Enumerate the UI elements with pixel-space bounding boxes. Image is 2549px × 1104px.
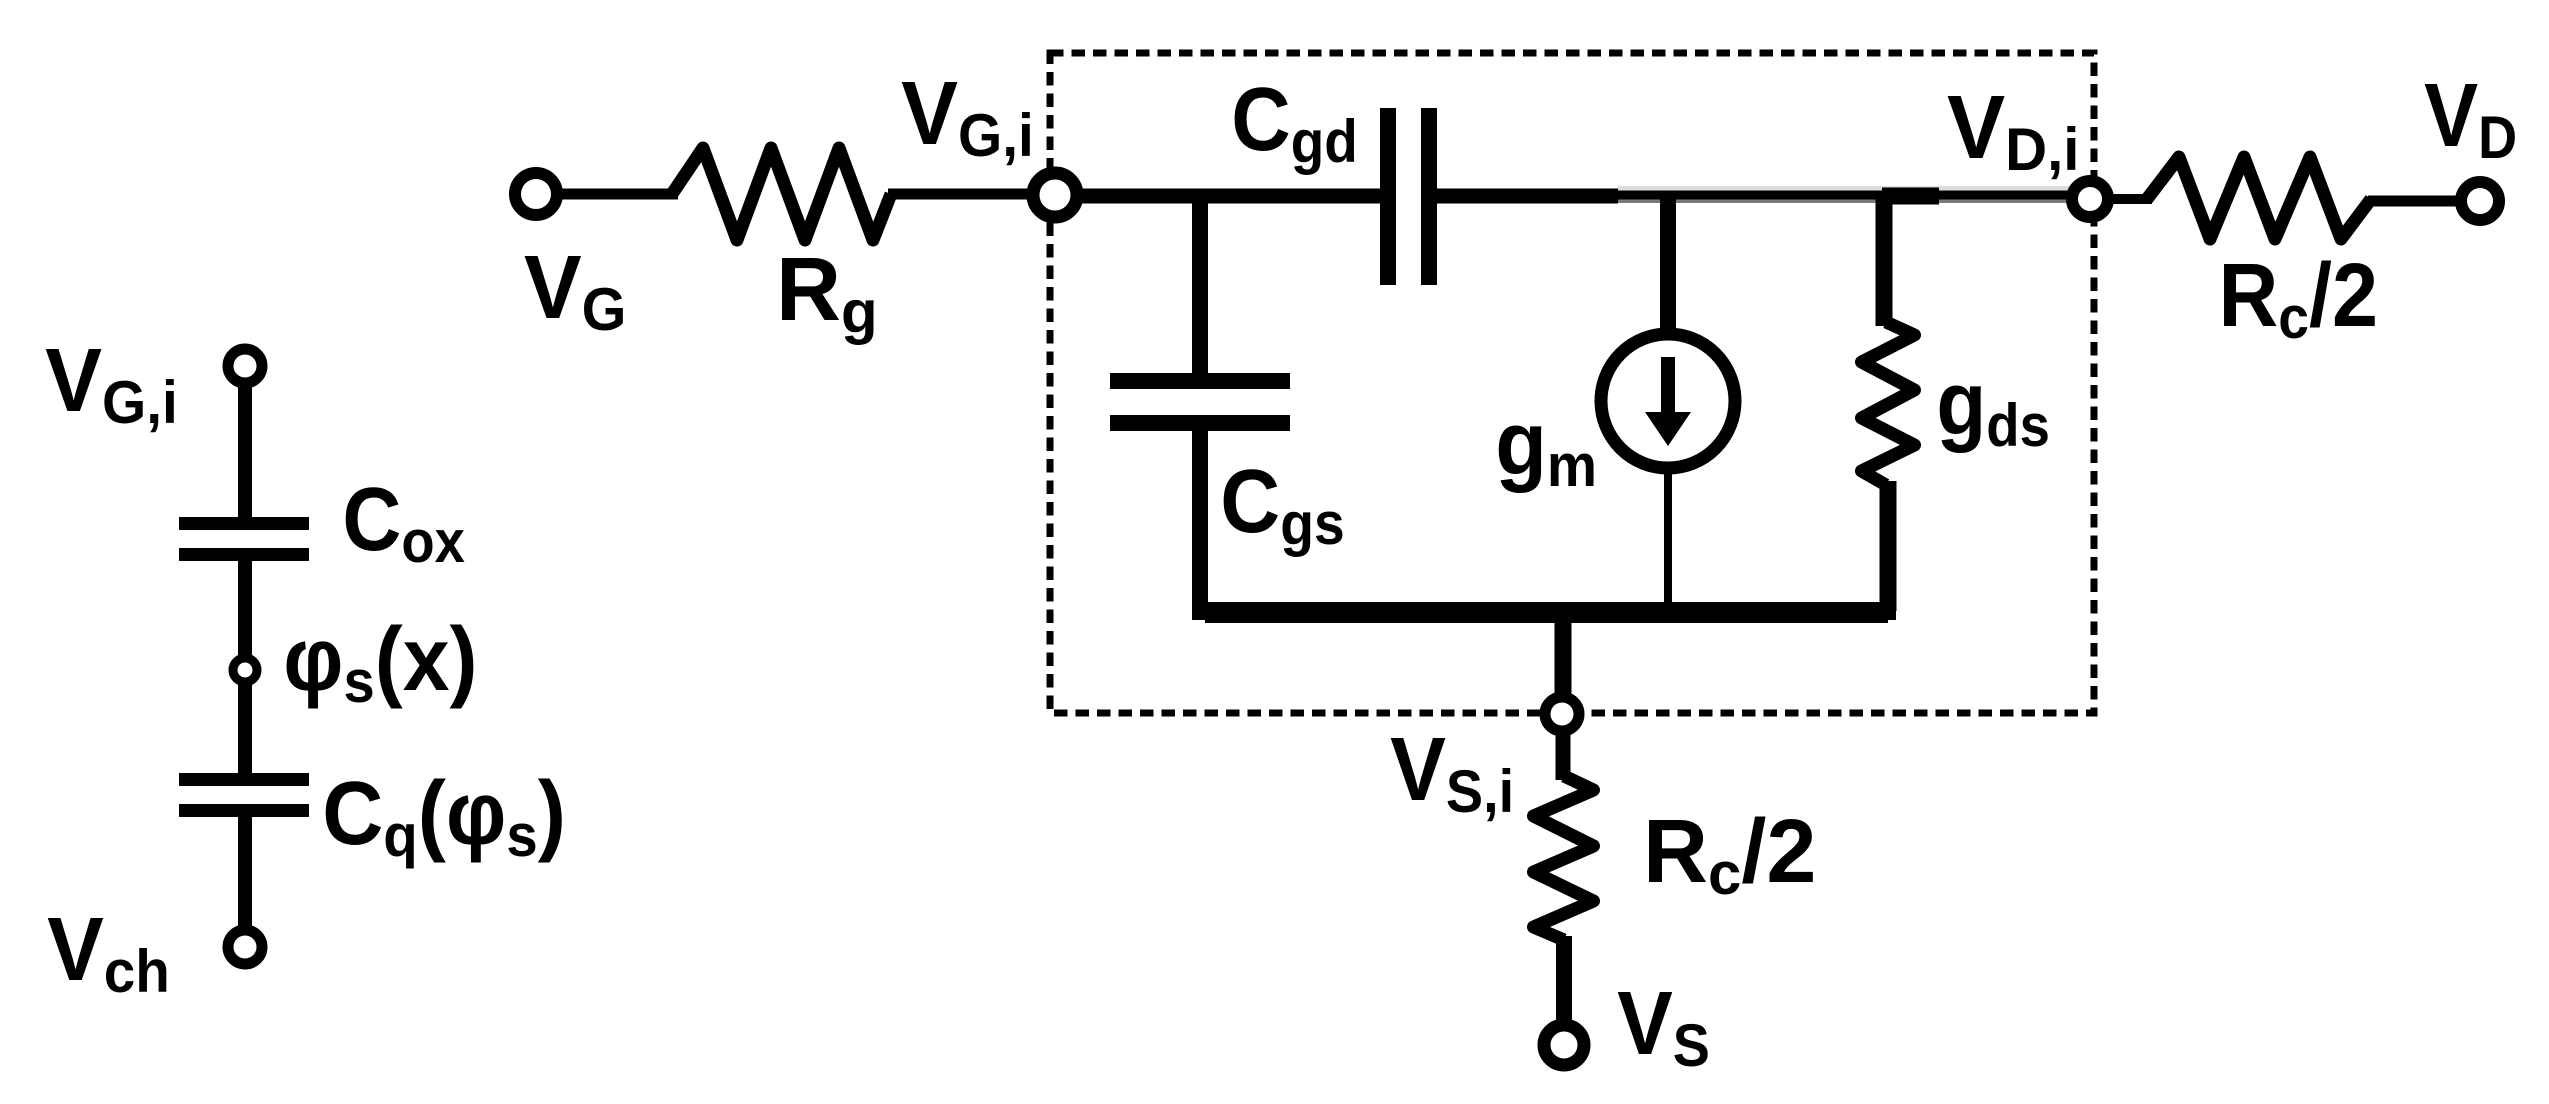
- wire: R_c/2 to V_S terminal: [1556, 936, 1572, 1045]
- wire: g_m branch from top wire down to current source: [1660, 196, 1676, 335]
- label V_G,i (left branch): [45, 330, 178, 436]
- terminal V_G,i (left branch, top): [228, 349, 262, 383]
- resistor R_c/2 (bottom, vertical zigzag): [1534, 776, 1594, 940]
- wire: C_gs bottom plate down to source rail: [1192, 431, 1208, 618]
- capacitor C_ox top plate: [179, 517, 309, 530]
- wire: g_m circle bottom to source rail (thin): [1664, 468, 1672, 612]
- wire: node V_S,i to R_c/2: [1556, 731, 1571, 780]
- capacitor C_gd right plate: [1421, 108, 1437, 285]
- wire: V_D,i to R_c/2 (top): [2108, 194, 2152, 204]
- label V_G,i (node): [901, 63, 1034, 169]
- label C_gs: [1220, 452, 1344, 558]
- label C_ox: [342, 469, 465, 575]
- label g_m: [1495, 393, 1597, 500]
- label V_ch: [47, 899, 170, 1006]
- wire: R_c/2 to V_D terminal: [2368, 196, 2458, 207]
- wire: C_gd right plate to drain node (thick part): [1437, 189, 1618, 204]
- label V_D: [2424, 65, 2517, 172]
- terminal V_G: [515, 173, 557, 215]
- label R_c/2 (bottom): [1643, 802, 1816, 907]
- terminal V_D: [2461, 182, 2499, 220]
- resistor R_g: [672, 148, 891, 240]
- wire: light upper fringe of thin drain wire: [1618, 186, 2070, 191]
- label V_S: [1617, 973, 1710, 1079]
- label C_q(phi_s): [322, 763, 566, 870]
- capacitor C_gd left plate: [1380, 108, 1396, 285]
- current source g_m arrow head: [1645, 412, 1691, 446]
- terminal V_S: [1544, 1025, 1584, 1065]
- wire: node phi_s to C_q top plate: [238, 682, 252, 773]
- label R_g: [776, 240, 878, 345]
- capacitor C_ox bottom plate: [179, 548, 309, 561]
- current source g_m (circle): [1601, 334, 1735, 468]
- resistor g_ds (vertical zigzag): [1862, 322, 1915, 485]
- current source g_m arrow shaft: [1661, 357, 1675, 414]
- wire: V_S,i stub from rail down to node: [1555, 611, 1572, 695]
- wire: g_ds branch vertical (top): [1876, 196, 1893, 326]
- wire: C_gs branch vertical (top): [1192, 196, 1208, 373]
- label V_G: [524, 236, 626, 343]
- wire: C_ox to node phi_s: [238, 561, 252, 670]
- wire: g_ds junction stub on top wire: [1882, 188, 1939, 205]
- wire: V_G to R_g: [557, 189, 678, 200]
- dashed box: intrinsic transistor: [1050, 53, 2094, 713]
- wire: C_q to V_ch terminal: [238, 817, 252, 947]
- wire: g_ds bottom to source rail: [1880, 481, 1897, 611]
- capacitor C_gs top plate: [1110, 373, 1290, 389]
- wire: source rail (bottom horizontal): [1192, 602, 1896, 620]
- capacitor C_gs bottom plate: [1110, 415, 1290, 431]
- capacitor C_q top plate: [179, 773, 309, 786]
- label V_S,i: [1390, 719, 1514, 825]
- wire: V_G,i terminal to C_ox top plate: [238, 366, 252, 517]
- terminal V_ch: [228, 930, 262, 964]
- wire: thin gray under-line of top drain wire: [1618, 199, 2070, 203]
- node V_S,i (circle): [1545, 697, 1579, 731]
- wire: thin top drain wire to V_D,i: [1618, 191, 2080, 200]
- resistor R_c/2 (top): [2147, 157, 2371, 239]
- svg-text:φs(x): φs(x): [283, 609, 477, 715]
- label V_D,i: [1947, 77, 2079, 183]
- wire: node V_G,i to C_gd left plate: [1077, 189, 1380, 204]
- label C_gd: [1231, 70, 1358, 176]
- wire: source rail lower edge step: [1205, 620, 1888, 623]
- capacitor C_q bottom plate: [179, 804, 309, 817]
- node phi_s(x): [233, 658, 257, 682]
- wire: R_g to node V_G,i: [888, 189, 1055, 200]
- node V_D,i (circle): [2072, 181, 2108, 217]
- label R_c/2 (top): [2219, 246, 2379, 352]
- label phi_s(x): [283, 609, 477, 715]
- label g_ds: [1936, 353, 2049, 459]
- node V_G,i (circle): [1033, 173, 1077, 217]
